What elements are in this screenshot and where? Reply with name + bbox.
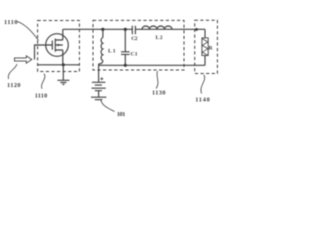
svg-text:1130: 1130 [152,90,166,97]
svg-text:101: 101 [117,111,126,118]
svg-text:1140: 1140 [195,97,210,104]
svg-text:C2: C2 [131,36,138,42]
svg-text:1120: 1120 [7,82,21,89]
svg-text:C1: C1 [131,52,138,58]
svg-text:1110: 1110 [35,93,48,100]
svg-text:R: R [209,46,214,52]
svg-text:L1: L1 [108,49,116,55]
svg-text:1110: 1110 [4,19,18,26]
svg-text:L2: L2 [156,35,163,41]
